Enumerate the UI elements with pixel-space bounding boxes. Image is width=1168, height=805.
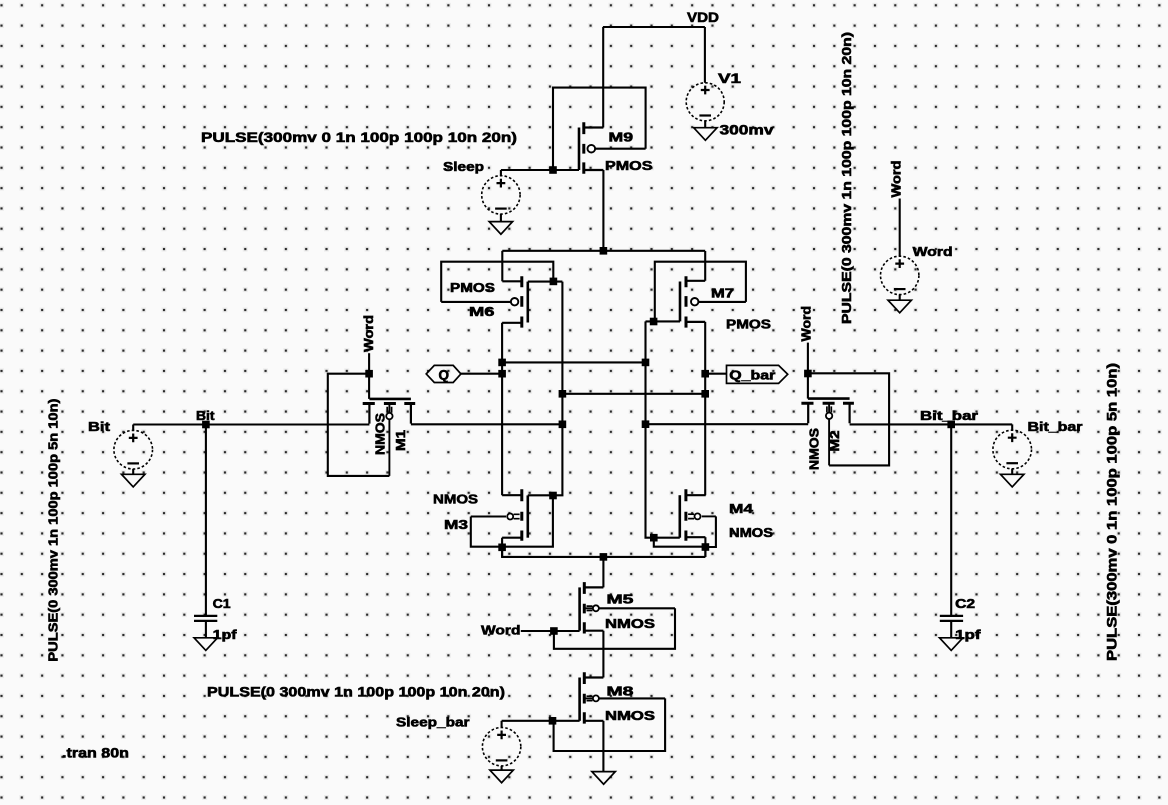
svg-text:PULSE(0 300mv 1n 100p 100p 10n: PULSE(0 300mv 1n 100p 100p 10n 20n) bbox=[207, 684, 505, 700]
svg-text:M7: M7 bbox=[711, 286, 734, 301]
node junction sleep-box bbox=[549, 166, 557, 174]
wire M5 gate-bulk box bbox=[554, 608, 675, 649]
node junction line D at Qbar column bbox=[559, 421, 567, 429]
wire Bit_bar source top lead bbox=[1011, 424, 1013, 430]
svg-text:Sleep: Sleep bbox=[443, 159, 484, 174]
wire Bit source bottom stub bbox=[132, 469, 134, 474]
node junction rail to M5 bbox=[600, 553, 608, 561]
svg-text:Word: Word bbox=[913, 244, 953, 259]
node junction M8 gate bbox=[549, 717, 557, 725]
wire M2 to Bit_bar bbox=[850, 423, 1013, 425]
wire Sleep_bar to M8 gate bbox=[502, 720, 580, 722]
svg-text:M1: M1 bbox=[393, 430, 408, 451]
wire M1 to line D bbox=[411, 423, 563, 425]
svg-text:Bit_bar: Bit_bar bbox=[920, 409, 978, 423]
wire C2 top bbox=[950, 424, 952, 615]
ground at Sleep source bbox=[489, 222, 512, 235]
ground at Bit source bbox=[122, 474, 145, 487]
wire Word source top lead bbox=[899, 199, 901, 257]
node junction Bit/C1 bbox=[202, 421, 210, 429]
svg-text:NMOS: NMOS bbox=[605, 616, 655, 631]
wire rail down to M5 drain bbox=[602, 557, 604, 588]
voltage source Sleep_bar bbox=[482, 728, 520, 766]
wire V1 bottom stub bbox=[704, 121, 706, 128]
ground at C1 bbox=[194, 638, 217, 651]
wire Sleep net bbox=[501, 170, 579, 176]
wire M7 bulk lead bbox=[698, 301, 746, 303]
node junction Bit_bar/C2 bbox=[947, 421, 955, 429]
wire Bit source top stub bbox=[132, 425, 134, 431]
svg-text:NMOS: NMOS bbox=[605, 708, 655, 723]
wire cell supply rail bbox=[502, 250, 705, 252]
wire M5 source down to M8 bbox=[602, 631, 604, 678]
wire Sleep source bottom stub bbox=[500, 214, 502, 222]
wire M9 gate-bulk box bbox=[553, 88, 646, 170]
transistor M9 (PMOS) bbox=[579, 122, 603, 173]
svg-text:NMOS: NMOS bbox=[433, 492, 478, 507]
wire M8 bulk lead to box bbox=[599, 697, 665, 699]
svg-text:M4: M4 bbox=[729, 501, 754, 516]
port Q_bar bbox=[727, 365, 788, 383]
wire rail drop to M7 source bbox=[704, 251, 706, 281]
node junction M4 source bbox=[702, 543, 710, 551]
wire M1 bulk box bbox=[328, 374, 390, 476]
svg-text:NMOS: NMOS bbox=[729, 525, 773, 540]
svg-text:Sleep_bar: Sleep_bar bbox=[396, 715, 470, 730]
wire C1 bottom bbox=[205, 621, 207, 638]
svg-text:1pf: 1pf bbox=[955, 627, 981, 642]
voltage source Word bbox=[881, 256, 919, 294]
voltage source V1 bbox=[686, 83, 724, 121]
transistor M7 (PMOS) bbox=[680, 276, 705, 327]
wire rail drop to M6 source bbox=[501, 251, 503, 281]
ground at Bit_bar source bbox=[1001, 474, 1024, 487]
wire Bit line bbox=[133, 423, 369, 425]
wire M8 gate-bulk box bbox=[554, 698, 666, 751]
transistor M4 (NMOS) bbox=[680, 489, 716, 541]
svg-text:Bit_bar: Bit_bar bbox=[1028, 420, 1083, 434]
ground at Sleep_bar source bbox=[490, 770, 513, 783]
node junction line D right bbox=[642, 420, 650, 428]
svg-text:NMOS: NMOS bbox=[807, 428, 822, 470]
svg-text:Word: Word bbox=[361, 315, 376, 352]
wire M4 bulk box bbox=[705, 516, 716, 547]
wire Word to M1 gate bbox=[368, 353, 370, 399]
voltage source Sleep bbox=[482, 176, 520, 214]
wire Word source bottom stub bbox=[899, 294, 901, 300]
svg-text:PULSE(0 300mv 1n 100p 100p 10n: PULSE(0 300mv 1n 100p 100p 10n 20n) bbox=[839, 32, 854, 324]
transistor M8 (NMOS) bbox=[580, 672, 604, 723]
wire line D right (to M2) bbox=[646, 423, 809, 425]
svg-text:NMOS: NMOS bbox=[373, 413, 388, 455]
transistor M6 (PMOS) bbox=[502, 276, 528, 327]
transistor M2 (NMOS) bbox=[801, 399, 854, 466]
wire cross line A (Q to right gates) bbox=[502, 361, 645, 363]
wire M6 gate tie to Qbar column bbox=[528, 281, 563, 283]
wire Word to M2 gate bbox=[807, 343, 809, 399]
svg-text:PULSE(300mv 0 1n 100p 100p 5n: PULSE(300mv 0 1n 100p 100p 5n 10n) bbox=[1105, 363, 1120, 661]
wire M7 gate-bulk box bbox=[655, 262, 746, 322]
wire Q port lead bbox=[461, 373, 502, 375]
node junction M2 gate/bulk bbox=[804, 370, 812, 378]
port Q bbox=[426, 365, 461, 382]
node junction M3 source bbox=[498, 544, 506, 552]
ground at M8 source bbox=[592, 772, 615, 785]
node junction M4 gate bbox=[650, 534, 658, 542]
wire M5 bulk lead to box bbox=[599, 607, 675, 609]
node junction M7 gate bbox=[650, 318, 658, 326]
svg-text:PMOS: PMOS bbox=[450, 280, 495, 295]
wire M8 source down bbox=[602, 721, 604, 772]
wire Sleep_bar source bottom stub bbox=[501, 766, 503, 770]
node junction M6 gate bbox=[550, 278, 558, 286]
wire M2 bulk box bbox=[808, 373, 889, 465]
wire Sleep_bar source top stub bbox=[501, 721, 503, 728]
wire M6 bulk lead bbox=[441, 301, 511, 303]
svg-text:C2: C2 bbox=[955, 596, 975, 611]
svg-text:Bit: Bit bbox=[88, 419, 111, 434]
ground at C2 bbox=[940, 638, 963, 651]
wire cross line C (left gates to Qbar) bbox=[562, 393, 705, 395]
svg-text:PMOS: PMOS bbox=[605, 158, 653, 173]
svg-text:M8: M8 bbox=[607, 683, 634, 698]
wire Bit_bar source bottom stub bbox=[1011, 469, 1013, 475]
svg-text:VDD: VDD bbox=[687, 10, 719, 25]
wire C2 bottom bbox=[950, 621, 952, 638]
svg-text:PULSE(0 300mv 1n 100p 100p 5n: PULSE(0 300mv 1n 100p 100p 5n 10n) bbox=[46, 399, 61, 662]
wire M7 gate tie to Q column bbox=[646, 320, 681, 322]
transistor M3 (NMOS) bbox=[471, 489, 528, 541]
voltage source Bit_bar bbox=[993, 430, 1032, 469]
svg-text:Word: Word bbox=[889, 160, 904, 197]
svg-text:PULSE(300mv 0 1n 100p 100p 10n: PULSE(300mv 0 1n 100p 100p 10n 20n) bbox=[201, 129, 517, 145]
svg-text:Word: Word bbox=[481, 623, 521, 638]
ground at Word source bbox=[888, 300, 911, 313]
svg-text:M5: M5 bbox=[607, 592, 634, 607]
svg-text:V1: V1 bbox=[718, 71, 742, 86]
svg-text:Q: Q bbox=[438, 367, 449, 382]
svg-text:.tran 80n: .tran 80n bbox=[62, 745, 129, 761]
node junction M5 gate bbox=[550, 627, 558, 635]
svg-text:300mv: 300mv bbox=[720, 123, 775, 138]
wire virtual ground rail bbox=[502, 547, 705, 557]
wire M6 gate-bulk box bbox=[441, 262, 553, 302]
node junction Q_bar bbox=[701, 370, 709, 378]
wire Q-gate column (M7 gate to M4 gate) bbox=[646, 321, 680, 537]
svg-text:M9: M9 bbox=[609, 130, 634, 145]
svg-text:Word: Word bbox=[799, 306, 814, 342]
node junction Q bbox=[498, 370, 506, 378]
node junction M3 gate bbox=[549, 492, 557, 500]
ground at V1 bbox=[694, 128, 717, 141]
transistor M1 (NMOS) bbox=[363, 399, 416, 476]
node junction M1 gate/bulk bbox=[365, 370, 373, 378]
svg-text:PMOS: PMOS bbox=[726, 317, 771, 332]
wire VDD rail top bbox=[603, 26, 705, 28]
wire V1 top lead bbox=[704, 27, 706, 83]
wire Q_bar port lead bbox=[705, 373, 726, 375]
wire M4 gate junction to source rail bbox=[654, 538, 706, 547]
svg-text:Bit: Bit bbox=[196, 409, 215, 423]
capacitor C2 bbox=[940, 616, 963, 621]
wire M9 bulk lead to box bbox=[595, 148, 646, 150]
svg-text:Q_bar: Q_bar bbox=[729, 369, 775, 383]
wire Word to M5 gate bbox=[521, 630, 580, 632]
wire M7 drain column bbox=[704, 322, 706, 495]
wire C1 top bbox=[205, 425, 207, 616]
wire M9 drain from VDD bbox=[602, 27, 604, 128]
svg-text:M3: M3 bbox=[444, 517, 468, 532]
wire M4 source down bbox=[704, 537, 706, 557]
svg-text:C1: C1 bbox=[213, 596, 231, 611]
voltage source Bit bbox=[114, 430, 153, 469]
wire M3 source down bbox=[501, 538, 503, 557]
wire M3 bulk box bbox=[471, 496, 553, 547]
svg-text:M6: M6 bbox=[469, 304, 495, 319]
transistor M5 (NMOS) bbox=[580, 582, 604, 633]
svg-text:M2: M2 bbox=[827, 431, 842, 452]
wire M6 drain column bbox=[501, 323, 503, 495]
capacitor C1 bbox=[194, 616, 217, 621]
wire Qbar column (M6 gate to M3 gate) bbox=[528, 282, 563, 496]
wire M9 source down to cell rail bbox=[602, 170, 604, 251]
node junction on cell rail bbox=[600, 247, 608, 255]
